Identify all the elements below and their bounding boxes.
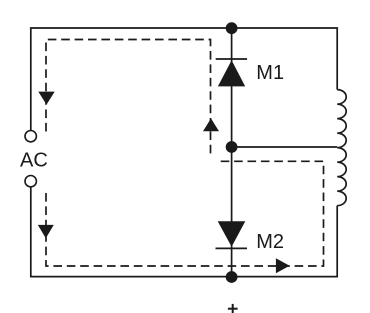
svg-text:AC: AC [20, 150, 48, 172]
svg-text:M2: M2 [256, 231, 284, 253]
svg-text:M1: M1 [256, 62, 284, 84]
